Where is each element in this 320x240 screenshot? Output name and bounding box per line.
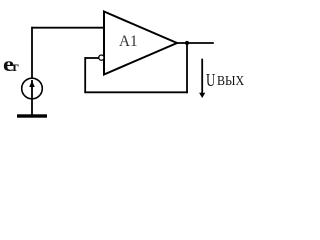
- wire input vertical from source: [31, 27, 33, 78]
- label U_out : U: [206, 70, 215, 91]
- ground: [17, 114, 47, 117]
- node output junction dot: [185, 41, 189, 45]
- wire feedback bottom horizontal: [84, 91, 188, 93]
- op-amp A1 triangle: [104, 12, 177, 75]
- label e_g : subscript: [13, 60, 19, 76]
- wire output horizontal: [176, 42, 214, 44]
- label A1: [119, 33, 138, 51]
- wire source to ground: [31, 98, 33, 115]
- inverting input bubble: [99, 55, 104, 60]
- source arrow shaft: [31, 80, 33, 99]
- wire input top horizontal: [31, 27, 104, 29]
- U_out arrowhead: [199, 93, 205, 98]
- label U_out : subscript: [217, 73, 244, 89]
- wire inverting input: [85, 57, 99, 59]
- source e_g circle: [22, 78, 43, 99]
- source arrowhead: [29, 81, 35, 87]
- wire feedback left vertical: [84, 57, 86, 92]
- U_out arrow shaft: [201, 59, 203, 95]
- wire feedback right vertical: [186, 43, 188, 93]
- label e_g : e: [3, 52, 14, 77]
